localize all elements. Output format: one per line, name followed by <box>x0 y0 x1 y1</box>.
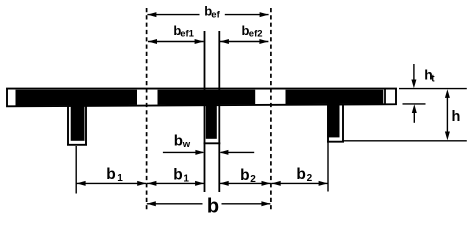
svg-text:2: 2 <box>250 174 256 185</box>
svg-text:b: b <box>296 166 305 183</box>
svg-text:2: 2 <box>307 173 313 184</box>
flange fill segment middle <box>158 90 256 105</box>
web middle fill <box>206 104 217 139</box>
svg-text:b: b <box>207 196 219 215</box>
svg-text:ef2: ef2 <box>249 29 263 40</box>
svg-text:b: b <box>174 133 183 150</box>
svg-text:b: b <box>240 167 249 184</box>
dimension h_t down arrow <box>413 64 415 81</box>
dimension b_ef line <box>147 14 268 16</box>
extension line below left web <box>75 146 77 194</box>
flange fill segment right <box>286 90 384 104</box>
svg-text:h: h <box>452 109 461 125</box>
flange slab outline <box>7 89 396 107</box>
web left fill <box>71 104 85 141</box>
dimension b2 right line <box>271 182 328 184</box>
node right zero-moment dashed line <box>270 8 272 212</box>
dimension h line <box>446 96 448 133</box>
svg-text:1: 1 <box>117 173 123 184</box>
web right outline <box>327 105 344 142</box>
extension line below right web <box>327 143 329 192</box>
web left outline <box>67 106 87 145</box>
node left zero-moment dashed line <box>146 8 148 212</box>
web middle side lines with extensions <box>205 31 220 192</box>
svg-text:ef1: ef1 <box>180 29 194 40</box>
flange right end divider <box>384 89 386 104</box>
dimension b_ef2 line <box>220 41 269 43</box>
svg-text:1: 1 <box>183 173 189 184</box>
dimension b_w arrows <box>163 151 254 153</box>
svg-text:t: t <box>431 73 435 84</box>
extension line web bottom right <box>344 140 467 142</box>
svg-text:ef: ef <box>211 10 220 21</box>
svg-text:b: b <box>106 166 115 183</box>
dimension b2 left line <box>219 182 271 184</box>
dimension b_ef1 line <box>148 41 204 43</box>
dimension b1 left line <box>76 182 146 184</box>
extension line slab top right <box>399 88 467 90</box>
extension line slab bottom right <box>403 103 426 105</box>
flange fill segment left <box>16 90 138 106</box>
dimension h_t up arrow <box>413 112 415 123</box>
svg-text:b: b <box>173 166 182 183</box>
dimension b1 right line <box>147 182 205 184</box>
web right fill <box>327 104 339 138</box>
svg-text:w: w <box>182 139 191 150</box>
web middle bottom <box>204 142 221 144</box>
dimension b line <box>147 203 271 205</box>
